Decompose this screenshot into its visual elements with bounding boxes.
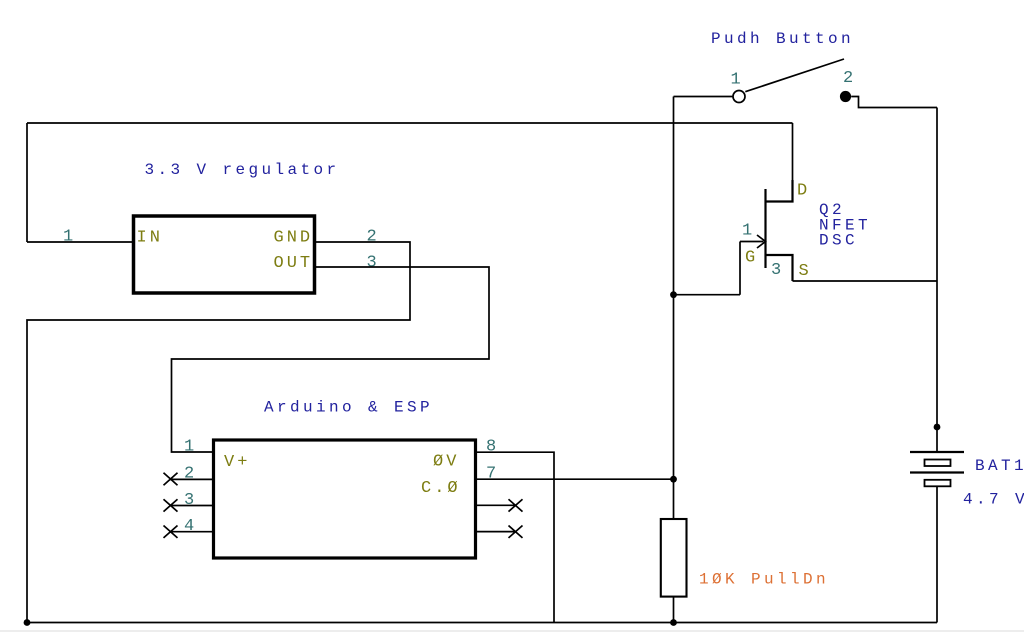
- svg-text:ØV: ØV: [433, 453, 459, 472]
- battery BAT1 plate: [910, 451, 964, 453]
- battery BAT1 plate: [925, 460, 951, 467]
- wire: [27, 241, 132, 243]
- resistor R1: [661, 519, 687, 597]
- wire: [673, 598, 675, 623]
- battery BAT1 plate: [925, 480, 951, 487]
- svg-text:2: 2: [184, 465, 194, 484]
- svg-text:BAT1: BAT1: [975, 457, 1024, 475]
- wire: [792, 123, 794, 182]
- svg-text:V+: V+: [224, 453, 250, 472]
- svg-text:3: 3: [771, 261, 781, 280]
- wire: [476, 478, 674, 480]
- svg-text:IN: IN: [137, 228, 163, 247]
- junction dot: [670, 476, 677, 483]
- wire: [673, 97, 675, 519]
- wire: [793, 280, 938, 282]
- wire: [27, 122, 793, 124]
- push button SW1 pin 2: [840, 91, 851, 102]
- wire: [172, 267, 490, 452]
- wire: [674, 242, 741, 295]
- wire: [851, 97, 937, 108]
- wire: [476, 531, 516, 533]
- svg-text:3: 3: [367, 253, 377, 272]
- svg-text:1: 1: [742, 222, 752, 241]
- junction dot: [670, 291, 677, 298]
- push button SW1 arm: [745, 59, 844, 92]
- svg-text:4: 4: [184, 517, 194, 536]
- wire: [27, 622, 937, 624]
- wire: [476, 504, 516, 506]
- junction dot: [24, 619, 31, 626]
- wire: [936, 486, 938, 622]
- wire: [170, 531, 214, 533]
- transistor Q2 drain stub: [766, 180, 793, 202]
- junction dot: [670, 619, 677, 626]
- Arduino U2 box: [214, 440, 476, 558]
- regulator U1 box: [134, 216, 315, 293]
- svg-text:OUT: OUT: [274, 254, 314, 273]
- junction dot: [934, 424, 941, 431]
- transistor Q2 arrowhead: [757, 235, 766, 248]
- svg-text:4.7 V: 4.7 V: [963, 491, 1024, 509]
- svg-text:S: S: [799, 262, 812, 281]
- wire: [170, 505, 214, 507]
- wire: [674, 96, 733, 98]
- wire: [170, 478, 214, 480]
- transistor Q2 gate arrow: [740, 241, 764, 243]
- svg-text:3.3 V regulator: 3.3 V regulator: [145, 161, 340, 179]
- window border line: [0, 630, 1024, 632]
- battery BAT1 plate: [910, 471, 964, 473]
- svg-text:1: 1: [63, 228, 73, 247]
- svg-text:3: 3: [184, 491, 194, 510]
- svg-text:G: G: [745, 249, 758, 268]
- push button SW1 pin 1: [733, 91, 745, 103]
- svg-text:D: D: [797, 182, 810, 201]
- svg-text:1: 1: [184, 438, 194, 457]
- svg-text:DSC: DSC: [819, 232, 858, 250]
- svg-text:C.Ø: C.Ø: [421, 479, 461, 498]
- svg-text:8: 8: [486, 438, 496, 457]
- wire: [27, 242, 410, 623]
- transistor Q2 source stub: [766, 255, 793, 281]
- no-connect X: [164, 526, 178, 538]
- no-connect X: [509, 526, 523, 538]
- svg-text:7: 7: [486, 465, 496, 484]
- svg-text:Arduino & ESP: Arduino & ESP: [264, 399, 433, 417]
- transistor Q2 bar: [764, 189, 766, 268]
- svg-text:Pudh Button: Pudh Button: [711, 30, 854, 48]
- svg-text:2: 2: [843, 69, 853, 88]
- wire: [936, 108, 938, 452]
- svg-text:GND: GND: [274, 228, 314, 247]
- no-connect X: [164, 473, 178, 485]
- no-connect X: [509, 499, 523, 511]
- svg-text:2: 2: [367, 228, 377, 247]
- svg-text:1: 1: [731, 71, 741, 90]
- no-connect X: [164, 499, 178, 511]
- wire: [476, 452, 555, 622]
- svg-text:1ØK PullDn: 1ØK PullDn: [699, 571, 829, 589]
- wire: [26, 123, 28, 242]
